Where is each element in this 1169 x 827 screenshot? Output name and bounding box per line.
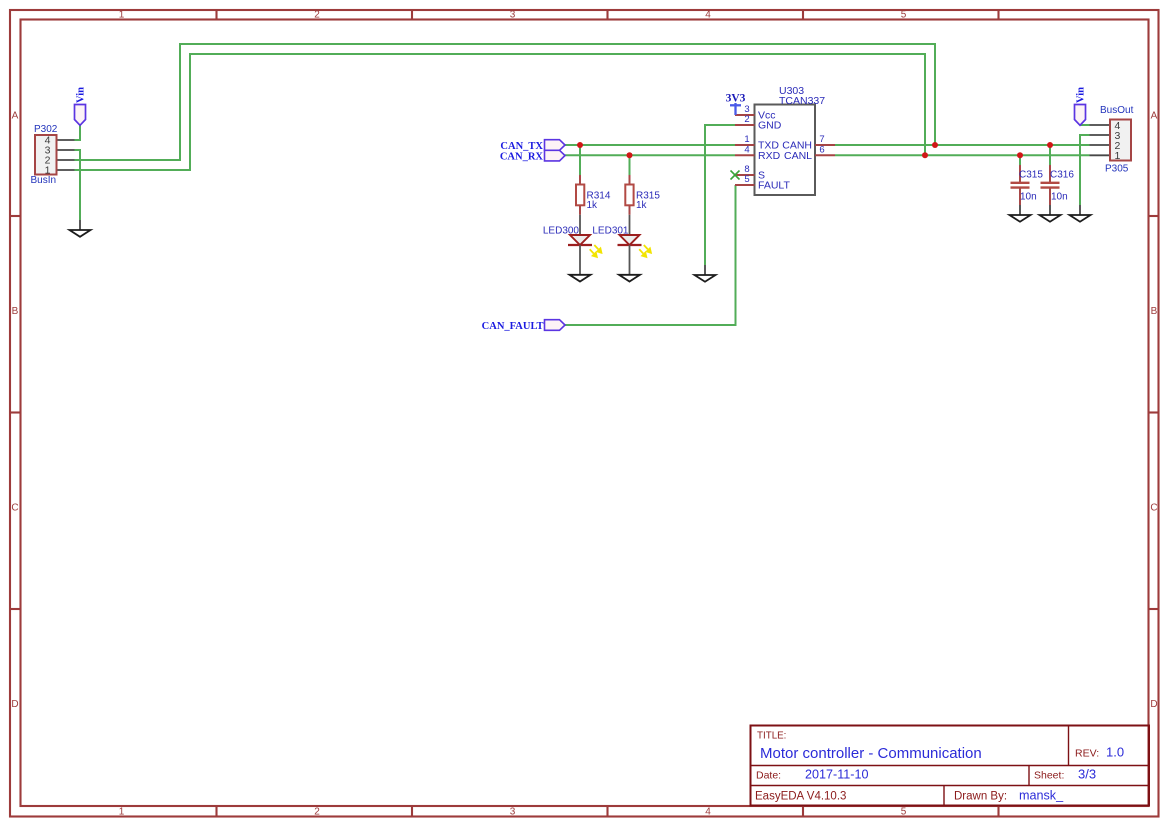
- wire C316 tap from CANH row: [1049, 145, 1051, 165]
- wire Vin flag to P305 pin4: [1080, 124, 1090, 126]
- svg-text:BusIn: BusIn: [31, 175, 57, 186]
- wire U303 GND pin to ground: [705, 125, 735, 265]
- wire CANL row: U303 CANL to P305 pin1: [835, 154, 1090, 156]
- svg-text:4: 4: [744, 144, 749, 155]
- power flag Vin (right): [1075, 87, 1087, 125]
- svg-text:CANL: CANL: [784, 150, 812, 162]
- wire CANH bus: P302 pin2 up and across top to CANH node: [75, 44, 936, 160]
- svg-text:5: 5: [744, 174, 749, 185]
- svg-text:2017-11-10: 2017-11-10: [805, 768, 869, 782]
- wire CAN_FAULT: flag to U303 FAULT pin: [565, 185, 736, 325]
- junction dot CAN_RX / R315: [627, 152, 633, 158]
- ground under P302: [70, 220, 91, 237]
- junction dot C315 on CANL: [1017, 152, 1023, 158]
- junction dot CANH bus at x935: [932, 142, 938, 148]
- svg-text:10n: 10n: [1051, 192, 1068, 203]
- connector P305 (BusOut): [1090, 105, 1134, 175]
- wire CAN_RX: flag to U303 RXD: [565, 154, 735, 156]
- svg-text:6: 6: [819, 144, 824, 155]
- capacitor C315: [1011, 165, 1044, 205]
- svg-text:4: 4: [705, 10, 711, 21]
- svg-text:C316: C316: [1050, 170, 1074, 181]
- ground under LED300: [570, 275, 591, 282]
- svg-text:P305: P305: [1105, 164, 1129, 175]
- junction dot C316 on CANH: [1047, 142, 1053, 148]
- svg-text:REV:: REV:: [1075, 748, 1099, 760]
- wire CANH row: U303 CANH to P305 pin2: [835, 144, 1090, 146]
- svg-text:C315: C315: [1019, 170, 1043, 181]
- svg-text:CAN_RX: CAN_RX: [500, 151, 544, 162]
- wire C315 tap from CANL row: [1019, 155, 1021, 165]
- svg-text:FAULT: FAULT: [758, 180, 790, 192]
- LED LED301: [592, 215, 651, 275]
- svg-text:CAN_FAULT: CAN_FAULT: [482, 321, 544, 332]
- svg-text:2: 2: [314, 10, 320, 21]
- net flag CAN_TX: [500, 140, 565, 152]
- svg-text:LED301: LED301: [592, 226, 629, 237]
- IC U303 TCAN337: [731, 85, 836, 195]
- svg-text:LED300: LED300: [543, 226, 580, 237]
- svg-text:A: A: [12, 110, 19, 121]
- svg-text:mansk_: mansk_: [1019, 789, 1064, 803]
- svg-text:10n: 10n: [1020, 192, 1037, 203]
- svg-text:5: 5: [901, 10, 907, 21]
- resistor R314: [576, 175, 611, 215]
- svg-text:1.0: 1.0: [1106, 745, 1124, 760]
- LED LED300: [543, 215, 602, 275]
- svg-text:Vin: Vin: [76, 87, 87, 103]
- svg-text:C: C: [11, 503, 18, 514]
- wire Vin flag to P302 pin4: [75, 125, 81, 140]
- svg-text:D: D: [1150, 699, 1157, 710]
- power flag Vin (left): [75, 87, 87, 125]
- svg-text:RXD: RXD: [758, 150, 781, 162]
- svg-text:Motor controller - Communicati: Motor controller - Communication: [760, 745, 982, 762]
- junction dot CAN_TX / R314: [577, 142, 583, 148]
- svg-text:Sheet:: Sheet:: [1034, 770, 1064, 782]
- wire P302 pin3 to ground: [75, 150, 81, 220]
- no-connect cross on pin 8 (S): [731, 171, 740, 180]
- resistor R315: [625, 175, 660, 215]
- svg-text:GND: GND: [758, 120, 782, 132]
- wire CAN_TX: flag to U303 TXD: [565, 144, 735, 146]
- capacitor C316: [1041, 165, 1075, 205]
- svg-text:1k: 1k: [636, 200, 648, 211]
- ground under P305 pin3: [1070, 205, 1091, 222]
- svg-text:B: B: [1151, 306, 1158, 317]
- ground under C316: [1040, 205, 1061, 222]
- svg-text:B: B: [12, 306, 19, 317]
- svg-text:EasyEDA V4.10.3: EasyEDA V4.10.3: [755, 791, 846, 803]
- svg-text:TITLE:: TITLE:: [757, 731, 786, 742]
- wire R314 drop from CAN_TX: [579, 145, 581, 175]
- svg-text:BusOut: BusOut: [1100, 105, 1134, 116]
- svg-text:1: 1: [119, 10, 125, 21]
- svg-text:TCAN337: TCAN337: [779, 95, 825, 107]
- ground under C315: [1010, 205, 1031, 222]
- wire R315 drop from CAN_RX: [629, 155, 631, 175]
- svg-text:Vin: Vin: [1076, 87, 1087, 103]
- svg-text:4: 4: [705, 807, 711, 818]
- svg-text:CAN_TX: CAN_TX: [500, 141, 543, 152]
- title block: [751, 726, 1150, 806]
- svg-text:D: D: [11, 699, 18, 710]
- svg-text:1: 1: [119, 807, 125, 818]
- ground under U303 GND: [695, 265, 716, 282]
- wire P305 pin3 to ground: [1080, 135, 1090, 205]
- connector P302 (BusIn): [31, 124, 75, 186]
- svg-text:3V3: 3V3: [726, 93, 746, 105]
- svg-text:Date:: Date:: [756, 770, 781, 782]
- svg-text:P302: P302: [34, 124, 58, 135]
- svg-text:C: C: [1150, 503, 1157, 514]
- svg-text:2: 2: [744, 114, 749, 125]
- svg-text:1: 1: [1115, 150, 1121, 162]
- svg-text:3: 3: [510, 807, 516, 818]
- svg-text:2: 2: [314, 807, 320, 818]
- net flag CAN_FAULT: [482, 320, 565, 332]
- svg-text:3: 3: [510, 10, 516, 21]
- wire CANL bus: P302 pin1 up and across top to CANL node: [75, 54, 926, 170]
- power flag 3V3 on U303 Vcc: [726, 93, 746, 116]
- ground under LED301: [619, 275, 640, 282]
- svg-text:3/3: 3/3: [1078, 767, 1096, 782]
- svg-text:5: 5: [901, 807, 907, 818]
- svg-text:Drawn By:: Drawn By:: [954, 791, 1007, 803]
- net flag CAN_RX: [500, 150, 565, 162]
- svg-text:A: A: [1151, 110, 1158, 121]
- junction dot CANL bus at x925: [922, 152, 928, 158]
- svg-text:1k: 1k: [587, 200, 599, 211]
